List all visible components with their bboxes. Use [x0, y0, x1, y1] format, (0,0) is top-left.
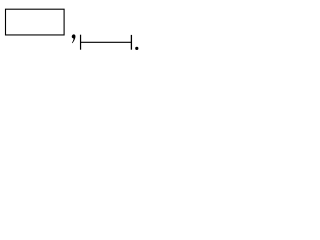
period: [135, 47, 138, 50]
segment horizontal line: [81, 41, 132, 43]
background: [0, 0, 147, 57]
segment left tick: [80, 35, 82, 50]
answer box: [6, 9, 65, 35]
comma: [72, 34, 76, 43]
segment right tick: [130, 35, 132, 50]
